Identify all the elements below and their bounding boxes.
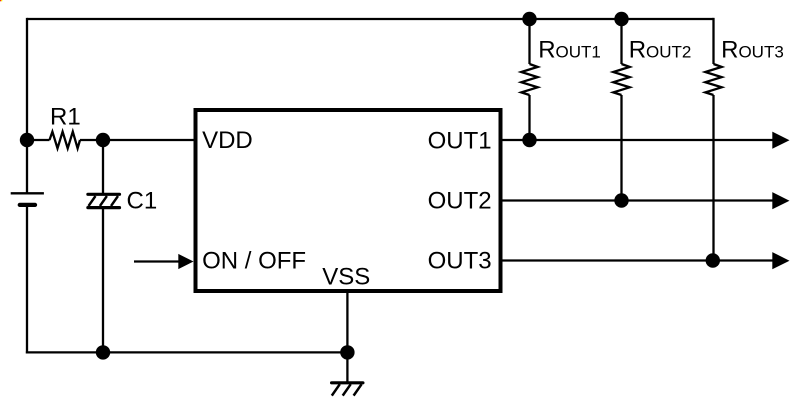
- svg-text:ROUT2: ROUT2: [629, 36, 692, 63]
- wire: bottom ground rail: [26, 351, 348, 353]
- wire: top supply rail: [27, 18, 714, 20]
- node: VSS / bottom rail: [340, 345, 354, 359]
- svg-text:VDD: VDD: [202, 127, 253, 154]
- IC U1: [196, 110, 501, 291]
- node: top rail / ROUT2: [614, 12, 628, 26]
- svg-text:ROUT3: ROUT3: [721, 36, 784, 63]
- svg-text:VSS: VSS: [322, 263, 370, 290]
- svg-text:OUT2: OUT2: [428, 187, 492, 214]
- corner artifact: [0, 0, 2, 1]
- node: OUT3 / ROUT3: [706, 253, 720, 267]
- arrowhead OUT1: [772, 132, 789, 149]
- wire: OUT2 line: [500, 199, 774, 201]
- svg-text:ROUT1: ROUT1: [538, 36, 601, 63]
- wire: OUT3 line: [500, 259, 774, 261]
- node: OUT1 / ROUT1: [522, 133, 536, 147]
- wire: OUT1 line: [500, 139, 774, 141]
- resistor ROUT3: [705, 18, 721, 261]
- arrowhead OUT2: [772, 192, 789, 209]
- ground: [332, 383, 363, 396]
- resistor R1: [27, 132, 103, 149]
- svg-text:OUT3: OUT3: [428, 248, 492, 275]
- wire: battery - down to bottom rail: [26, 205, 28, 354]
- resistor ROUT1: [521, 19, 537, 140]
- wire: left rail from top to battery +: [26, 18, 28, 194]
- capacitor C1: [88, 140, 120, 352]
- arrowhead OUT3: [772, 252, 789, 269]
- node: battery/R1 junction: [20, 133, 34, 147]
- resistor ROUT2: [613, 19, 629, 201]
- battery B1: [11, 193, 44, 205]
- node: OUT2 / ROUT2: [614, 193, 628, 207]
- svg-text:R1: R1: [50, 104, 81, 131]
- svg-text:C1: C1: [127, 187, 158, 214]
- wire: VSS pin to ground: [346, 291, 348, 383]
- svg-text:ON / OFF: ON / OFF: [202, 247, 306, 274]
- svg-text:OUT1: OUT1: [428, 127, 492, 154]
- node: C1/bottom rail junction: [96, 345, 110, 359]
- node: top rail / ROUT1: [522, 12, 536, 26]
- wire: VDD node to IC: [103, 139, 196, 141]
- ON/OFF input arrow: [134, 254, 194, 269]
- node: R1/C1/VDD junction: [96, 133, 110, 147]
